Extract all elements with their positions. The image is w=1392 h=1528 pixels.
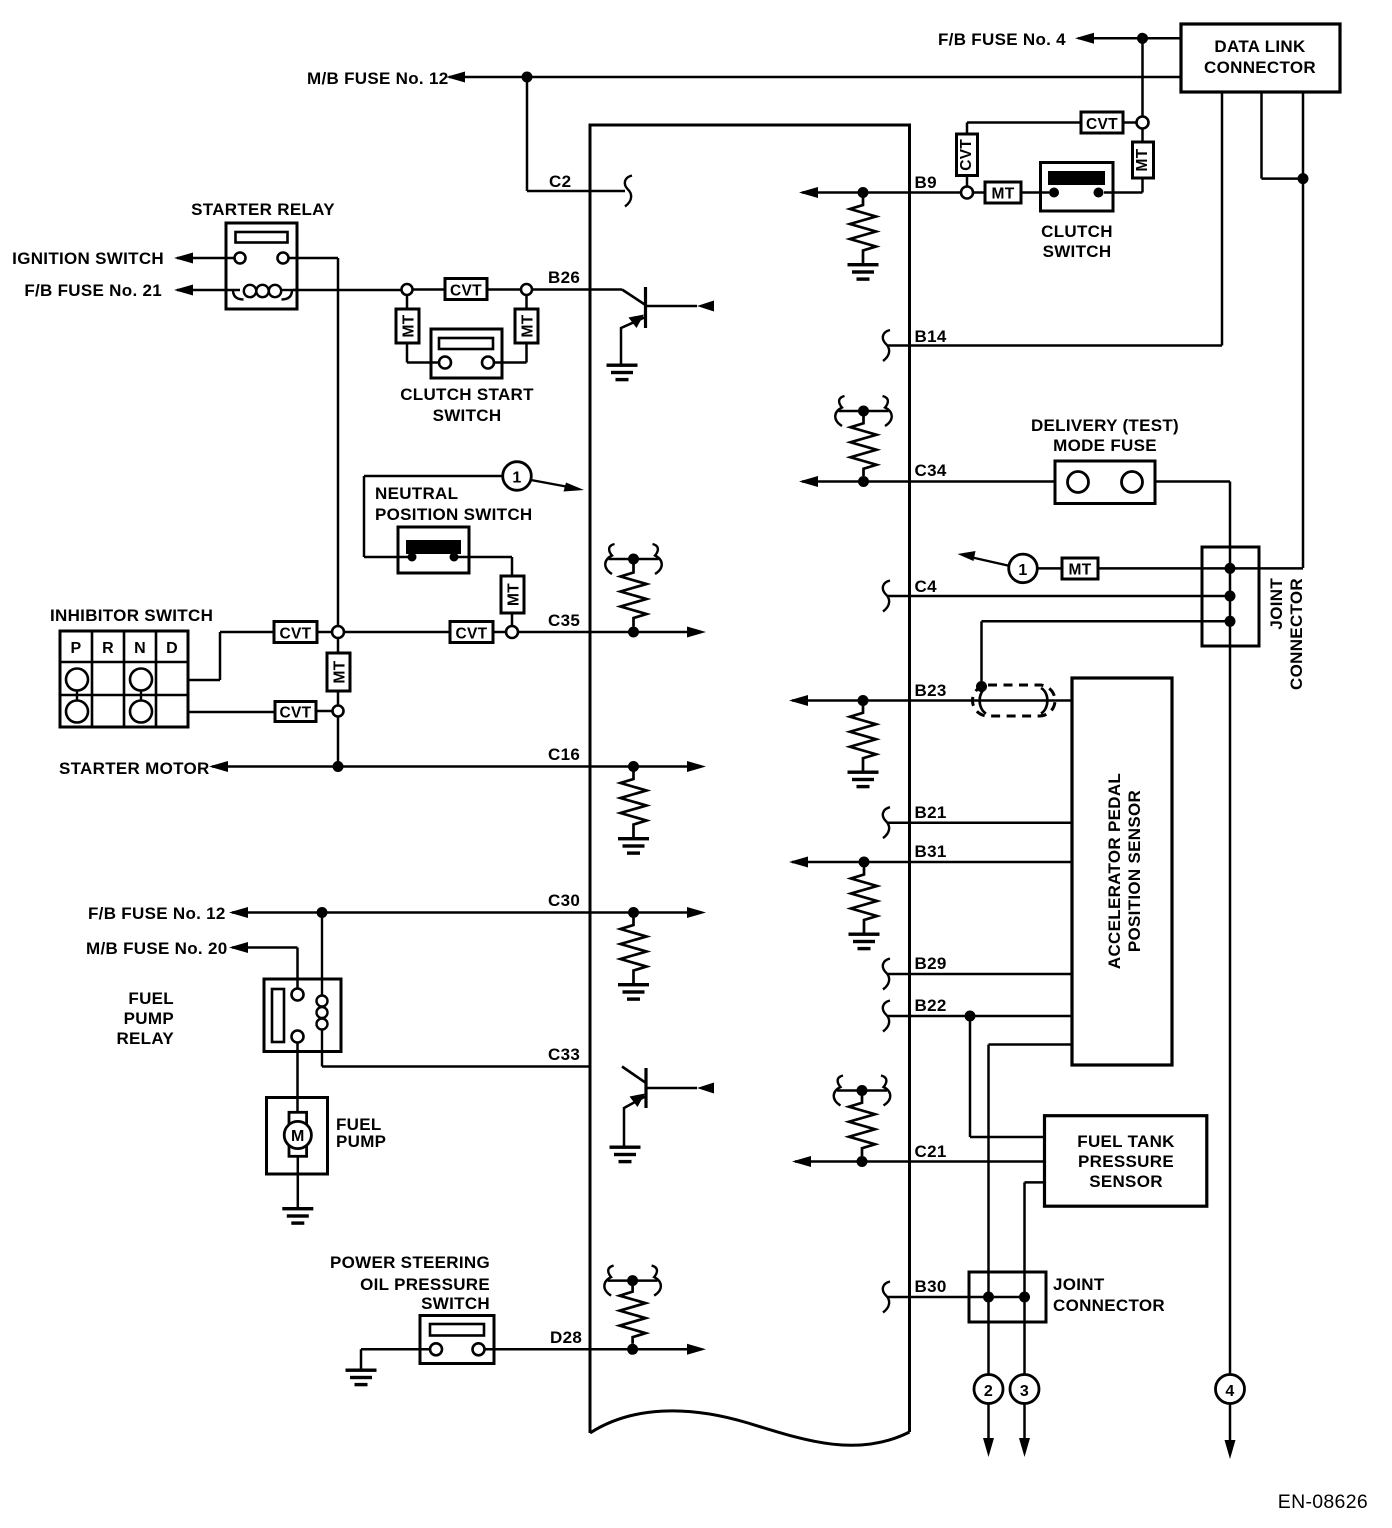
junction dot JC pin 3	[1225, 616, 1236, 627]
svg-text:C34: C34	[915, 461, 947, 480]
svg-text:MT: MT	[401, 314, 418, 337]
wire vertical bus to inhibitor node	[337, 258, 340, 626]
shield hooks above C35 resistor	[605, 544, 662, 574]
wire B22 to sensor	[888, 1015, 1072, 1018]
arrow to IGNITION SWITCH	[174, 253, 193, 264]
svg-text:MT: MT	[520, 314, 537, 337]
wire CVT node to MT	[1141, 129, 1144, 143]
label M/B FUSE No. 12	[307, 69, 448, 88]
inhibitor switch table	[60, 631, 188, 727]
starter relay coil	[233, 285, 297, 300]
svg-text:SENSOR: SENSOR	[1089, 1172, 1163, 1191]
junction dot B9	[858, 187, 869, 198]
svg-text:JOINT: JOINT	[1267, 578, 1286, 630]
wire JC pin3 to shield	[982, 621, 1231, 681]
wire relay to fuel pump	[296, 1043, 299, 1113]
reference circle 1 (neutral position switch)	[364, 462, 531, 491]
delivery fuse terminal 1	[1068, 472, 1089, 493]
arrow B9 internal	[799, 187, 818, 198]
MT box on B9 line	[985, 182, 1021, 203]
arrow C16 internal	[687, 761, 706, 772]
junction dot C21	[857, 1156, 868, 1167]
shield arc left	[980, 688, 986, 714]
wire C30 line	[232, 911, 590, 914]
wire C16 inside ECU	[590, 765, 687, 768]
ECU main harness connector box right edge	[908, 125, 911, 1432]
joint connector box (lower)	[969, 1272, 1046, 1322]
wire D28 line	[485, 1348, 591, 1351]
inhibitor switch contact P row2	[66, 669, 88, 691]
label F/B FUSE No. 4	[938, 30, 1066, 49]
clutch start switch pin 2	[482, 357, 494, 369]
wire C34 line	[802, 480, 1055, 483]
svg-text:CONNECTOR: CONNECTOR	[1204, 58, 1316, 77]
label POWER STEERING OIL PRESSURE SWITCH	[330, 1253, 490, 1313]
svg-text:C33: C33	[548, 1045, 580, 1064]
break symbol at B22	[883, 1001, 890, 1032]
CVT box on B26 line	[445, 279, 487, 300]
wire relay coil to C33	[322, 1065, 590, 1068]
label FUEL PUMP	[336, 1115, 386, 1151]
arrow to M/B FUSE No. 20	[229, 942, 248, 953]
label C35	[548, 611, 580, 630]
wire NPS pin2 down through MT (C35 branch)	[454, 557, 512, 576]
label JOINT CONNECTOR (lower)	[1053, 1275, 1165, 1315]
arrow B31 internal	[789, 857, 808, 868]
resistor R-B31	[851, 862, 877, 933]
label INHIBITOR SWITCH	[50, 606, 213, 625]
wire relay pin 2 to vertical bus	[289, 257, 339, 260]
accelerator pedal position sensor box	[1072, 678, 1172, 1065]
wire C4 to JC	[888, 595, 1230, 598]
arrow to F/B FUSE No. 12	[229, 907, 248, 918]
junction dot JC pin 2	[1225, 591, 1236, 602]
fuel pump motor M	[284, 1121, 311, 1148]
svg-text:PUMP: PUMP	[124, 1009, 174, 1028]
svg-text:C35: C35	[548, 611, 580, 630]
label STARTER RELAY	[191, 200, 335, 219]
arrow from circle 1 (ECU side)	[958, 551, 1011, 566]
arrow down 4	[1225, 1440, 1236, 1459]
wire below circle 2	[987, 1404, 990, 1439]
transistor Q1 at B26	[590, 287, 714, 364]
label EN-08626	[1278, 1491, 1368, 1513]
MT box on bus (inhibitor)	[327, 653, 350, 691]
label B21	[915, 803, 947, 822]
neutral position switch contact bar	[406, 540, 461, 554]
reference circle 2	[974, 1375, 1003, 1404]
shield hooks above C34 resistor	[835, 396, 892, 426]
svg-text:MT: MT	[332, 660, 349, 683]
svg-text:F/B FUSE No. 4: F/B FUSE No. 4	[938, 30, 1066, 49]
ground at ps switch	[346, 1369, 377, 1387]
starter relay contact bar	[236, 232, 288, 243]
node circle on bus (row3)	[333, 706, 344, 717]
label STARTER MOTOR	[59, 759, 210, 778]
node circle right of CVT (B26 line)	[521, 284, 532, 295]
label B14	[915, 327, 947, 346]
label C16	[548, 745, 580, 764]
wire C21 line	[795, 1160, 1045, 1163]
wire fuse4 node down to CVT node	[1141, 38, 1144, 116]
clutch start switch contact bar	[439, 338, 493, 349]
svg-text:CVT: CVT	[280, 705, 312, 722]
svg-text:N: N	[134, 640, 146, 657]
neutral position switch pin 1	[408, 553, 417, 562]
fuel pump brush housing	[289, 1112, 307, 1156]
wire MT to clutch switch pin	[973, 191, 1049, 194]
svg-text:DELIVERY (TEST): DELIVERY (TEST)	[1031, 416, 1179, 435]
label FUEL PUMP RELAY	[116, 989, 174, 1048]
wire B14 to DLC	[888, 344, 1222, 347]
junction dot JC pin 1	[1225, 563, 1236, 574]
svg-text:R: R	[102, 640, 114, 657]
wire node down to starter motor line	[337, 717, 340, 767]
svg-text:C16: C16	[548, 745, 580, 764]
wire MT down to clutch switch	[1104, 178, 1143, 193]
MT box right (clutch start)	[515, 309, 538, 343]
junction dot C35	[628, 627, 639, 638]
resistor R-C30	[621, 913, 647, 984]
wire relay coil to clutch start circuit	[293, 289, 402, 292]
junction dot JC2 pin 1	[983, 1292, 994, 1303]
label B29	[915, 954, 947, 973]
svg-text:F/B FUSE No. 12: F/B FUSE No. 12	[88, 904, 226, 923]
ground below R-B9	[848, 263, 879, 281]
arrow C34 internal	[799, 476, 818, 487]
svg-text:C2: C2	[549, 172, 571, 191]
junction dot D28	[627, 1344, 638, 1355]
label D28	[550, 1328, 582, 1347]
fuel pump relay coil	[317, 913, 328, 1067]
wire inhibitor row2 to CVT box	[188, 632, 274, 680]
CVT box (clutch, horizontal)	[1081, 112, 1123, 133]
arrow to STARTER MOTOR	[209, 761, 228, 772]
junction dot DLC pin3	[1298, 173, 1309, 184]
wire MT to lower node circle	[337, 691, 340, 706]
wire fuse to joint connector bus	[1155, 482, 1230, 563]
arrow to F/B FUSE No. 21	[174, 285, 193, 296]
label IGNITION SWITCH	[12, 249, 164, 268]
wire F/B fuse 21 to relay coil	[177, 289, 240, 292]
wire B29 to sensor	[888, 973, 1072, 976]
svg-text:CLUTCH: CLUTCH	[1041, 222, 1113, 241]
inhibitor switch column labels P R N D	[71, 640, 178, 657]
svg-text:B30: B30	[915, 1277, 947, 1296]
ground below R-C16	[618, 837, 649, 855]
wire CVT to bus node circle	[317, 631, 332, 634]
ground below R-B23	[848, 771, 879, 789]
label F/B FUSE No. 12	[88, 904, 226, 923]
label B22	[915, 996, 947, 1015]
svg-text:CONNECTOR: CONNECTOR	[1287, 578, 1306, 690]
svg-text:ACCELERATOR PEDAL: ACCELERATOR PEDAL	[1105, 773, 1124, 969]
label C21	[915, 1142, 947, 1161]
svg-text:PUMP: PUMP	[336, 1132, 386, 1151]
wire node to ECU pin B26	[532, 288, 590, 291]
break symbol at C2	[625, 176, 632, 207]
svg-text:SWITCH: SWITCH	[421, 1294, 490, 1313]
clutch switch contact bar	[1048, 171, 1105, 185]
wire CVT to right node circle	[413, 288, 522, 291]
wire DLC pin2 down	[1262, 92, 1304, 179]
wire below circle 3	[1023, 1404, 1026, 1439]
svg-text:CVT: CVT	[958, 139, 975, 171]
svg-text:POWER STEERING: POWER STEERING	[330, 1253, 490, 1272]
junction dot node C2 feed	[522, 72, 533, 83]
svg-text:B9: B9	[915, 173, 937, 192]
wire circle-1 line down to NPS	[364, 476, 412, 557]
power steering switch pin 2	[473, 1343, 485, 1355]
arrow from circle 1 to ECU	[531, 480, 584, 492]
svg-text:OIL PRESSURE: OIL PRESSURE	[360, 1275, 490, 1294]
resistor R-B23	[850, 701, 876, 771]
svg-text:4: 4	[1225, 1383, 1234, 1400]
arrow down 3	[1019, 1438, 1030, 1457]
delivery mode fuse box	[1055, 461, 1155, 504]
svg-text:B23: B23	[915, 681, 947, 700]
wire C35 node to ECU	[518, 631, 590, 634]
fuel pump relay pin top	[292, 989, 304, 1001]
wire ps switch to ground	[361, 1349, 430, 1368]
wire circle1 to MT to JC	[1038, 567, 1231, 570]
clutch start switch box	[431, 329, 502, 378]
wire C35 inside ECU	[590, 631, 687, 634]
arrow C30 internal	[687, 907, 706, 918]
junction dot F/B fuse 4	[1137, 33, 1148, 44]
wire starter motor line	[212, 765, 590, 768]
svg-text:1: 1	[512, 470, 521, 487]
junction dot C34	[858, 476, 869, 487]
wire CVT3 to node	[316, 710, 333, 713]
wire CVT2 to NPS node circle	[493, 631, 506, 634]
svg-text:MT: MT	[506, 583, 523, 606]
svg-text:CONNECTOR: CONNECTOR	[1053, 1296, 1165, 1315]
wire B9 line	[802, 191, 961, 194]
wire fuel pump to ground	[297, 1156, 300, 1207]
wire node to CVT box 2	[344, 631, 450, 634]
svg-text:F/B FUSE No. 21: F/B FUSE No. 21	[24, 281, 162, 300]
svg-text:FUEL: FUEL	[128, 989, 174, 1008]
node circle on C35 at NPS branch	[506, 626, 518, 638]
svg-text:M/B FUSE No. 20: M/B FUSE No. 20	[86, 939, 227, 958]
reference circle 3	[1010, 1375, 1039, 1404]
svg-text:M: M	[291, 1128, 305, 1145]
bus node circle on C35	[332, 626, 344, 638]
ground at Q1 emitter	[607, 364, 638, 382]
wire DLC pin1 down to B14	[1221, 92, 1224, 346]
wire CVT left and down	[967, 123, 1137, 135]
svg-text:B22: B22	[915, 996, 947, 1015]
svg-text:STARTER MOTOR: STARTER MOTOR	[59, 759, 210, 778]
ground below R-C30	[618, 983, 649, 1001]
joint connector box (upper)	[1202, 547, 1259, 646]
DATA LINK CONNECTOR box	[1181, 24, 1340, 92]
label CLUTCH START SWITCH	[400, 385, 534, 425]
CVT box on C35 line right	[450, 622, 493, 643]
fuel pump relay pin bottom	[292, 1031, 304, 1043]
shield arc right	[1041, 688, 1047, 714]
resistor R-C16	[621, 767, 647, 838]
transistor Q2 at C33	[622, 1067, 714, 1147]
svg-text:D28: D28	[550, 1328, 582, 1347]
junction dot B31	[859, 857, 870, 868]
fuel pump relay contact bar	[272, 989, 284, 1042]
starter relay pin 2	[278, 253, 289, 264]
CVT box row 3	[275, 702, 316, 722]
label C30	[548, 891, 580, 910]
wire switch pin2 up through MT to node	[494, 295, 527, 363]
CVT box (clutch, vertical)	[957, 134, 978, 176]
MT box (clutch, vertical)	[1133, 142, 1154, 178]
wire C30 inside ECU	[590, 911, 687, 914]
svg-text:PRESSURE: PRESSURE	[1078, 1152, 1174, 1171]
junction dot C16	[628, 761, 639, 772]
clutch switch pin 2	[1094, 188, 1104, 198]
shield dot at B23	[976, 681, 987, 692]
wire B23 line	[792, 699, 1072, 702]
svg-text:SWITCH: SWITCH	[433, 406, 502, 425]
label JOINT CONNECTOR (vertical)	[1267, 578, 1306, 690]
joint connector bus vertical	[1229, 562, 1232, 1375]
svg-text:JOINT: JOINT	[1053, 1275, 1105, 1294]
wire junction down to C2	[527, 77, 590, 191]
resistor R-C35	[621, 564, 647, 627]
MT box (neutral position switch)	[501, 576, 524, 613]
label DELIVERY (TEST) MODE FUSE	[1031, 416, 1179, 455]
wire DLC pin3 down	[1302, 92, 1305, 568]
fuel pump relay box	[264, 979, 341, 1052]
clutch switch box	[1041, 163, 1114, 212]
starter relay pin 1	[235, 253, 246, 264]
reference circle 1 (joint connector)	[1009, 554, 1038, 583]
label NEUTRAL POSITION SWITCH	[375, 484, 533, 524]
junction dot B22	[965, 1011, 976, 1022]
svg-text:STARTER RELAY: STARTER RELAY	[191, 200, 335, 219]
wire D28 inside ECU	[590, 1348, 687, 1351]
node circle on B9	[961, 187, 973, 199]
break symbol at B29	[883, 959, 890, 990]
svg-text:B31: B31	[915, 842, 947, 861]
arrow C21 internal	[792, 1156, 811, 1167]
junction dot starter motor bus	[333, 761, 344, 772]
label ACCELERATOR PEDAL POSITION SENSOR	[1105, 773, 1144, 969]
arrow B23 internal	[789, 695, 808, 706]
shield hooks above C21 resistor	[834, 1076, 891, 1106]
arrow to F/B FUSE No. 4	[1075, 33, 1094, 44]
wire left node down through MT to switch	[407, 295, 439, 363]
svg-text:MT: MT	[992, 186, 1015, 203]
svg-text:C30: C30	[548, 891, 580, 910]
arrow C35 internal	[687, 627, 706, 638]
break symbol at C4	[883, 581, 890, 612]
ECU main harness connector box left edge	[589, 125, 592, 1433]
svg-text:B21: B21	[915, 803, 947, 822]
wire B31 line	[792, 861, 1072, 864]
arrow D28 internal	[687, 1344, 706, 1355]
label C2	[549, 172, 571, 191]
wire sensor bottom to joint connector 2	[989, 1045, 1073, 1376]
svg-text:CVT: CVT	[1086, 116, 1118, 133]
wire JC to DLC riser	[1230, 567, 1303, 570]
svg-text:B26: B26	[548, 268, 580, 287]
wire B21 to sensor	[888, 821, 1072, 824]
junction dot JC2 pin 2	[1019, 1292, 1030, 1303]
svg-text:MODE FUSE: MODE FUSE	[1053, 436, 1157, 455]
wire sensor pin3 to joint connector 2	[1025, 1182, 1045, 1375]
delivery fuse terminal 2	[1122, 472, 1143, 493]
label F/B FUSE No. 21	[24, 281, 162, 300]
shield dashed oval at B23	[973, 685, 1056, 716]
svg-text:NEUTRAL: NEUTRAL	[375, 484, 458, 503]
wire M/B FUSE No.12 to DATA LINK CONNECTOR	[449, 76, 1181, 79]
wire bus node to MT	[337, 638, 340, 653]
svg-text:CLUTCH START: CLUTCH START	[400, 385, 534, 404]
resistor R-B9	[850, 193, 876, 264]
svg-text:CVT: CVT	[280, 626, 312, 643]
label C34	[915, 461, 947, 480]
label B23	[915, 681, 947, 700]
wire vertical CVT to node circle	[966, 176, 969, 187]
junction dot B23	[858, 695, 869, 706]
label B31	[915, 842, 947, 861]
wire JC2 pins link	[989, 1296, 1025, 1299]
label CLUTCH SWITCH	[1041, 222, 1113, 261]
ground below R-B31	[849, 933, 880, 951]
MT box (joint connector line)	[1062, 558, 1098, 579]
resistor R-C34	[851, 416, 877, 476]
MT box left (clutch start)	[396, 309, 419, 343]
label C33	[548, 1045, 580, 1064]
resistor R-D28	[620, 1285, 646, 1344]
svg-text:SWITCH: SWITCH	[1043, 242, 1112, 261]
ECU main harness connector box top edge	[589, 124, 912, 127]
resistor R-C21	[849, 1095, 875, 1156]
starter relay box	[226, 223, 297, 309]
svg-text:INHIBITOR SWITCH: INHIBITOR SWITCH	[50, 606, 213, 625]
wire C2 inside ECU	[590, 190, 625, 193]
node circle left of CVT (B26 line)	[402, 284, 413, 295]
wire M/B fuse 20 to relay	[232, 948, 298, 989]
inhibitor switch contact N row2	[130, 669, 152, 691]
power steering switch contact bar	[430, 1324, 484, 1336]
inhibitor switch contact link N	[140, 691, 142, 701]
svg-text:DATA LINK: DATA LINK	[1214, 37, 1306, 56]
clutch start switch pin 1	[439, 357, 451, 369]
neutral position switch box	[398, 527, 469, 573]
svg-text:C21: C21	[915, 1142, 947, 1161]
svg-text:EN-08626: EN-08626	[1278, 1491, 1368, 1513]
svg-text:B14: B14	[915, 327, 947, 346]
svg-text:POSITION SWITCH: POSITION SWITCH	[375, 505, 533, 524]
svg-text:MT: MT	[1069, 562, 1092, 579]
svg-text:MT: MT	[1134, 148, 1151, 171]
label B9	[915, 173, 937, 192]
svg-text:B29: B29	[915, 954, 947, 973]
svg-text:FUEL TANK: FUEL TANK	[1077, 1132, 1175, 1151]
clutch switch pin 1	[1049, 188, 1059, 198]
svg-text:3: 3	[1020, 1383, 1029, 1400]
junction dot C30	[628, 907, 639, 918]
svg-text:M/B FUSE No. 12: M/B FUSE No. 12	[307, 69, 448, 88]
node circle clutch CVT	[1137, 117, 1149, 129]
fuel pump box	[267, 1098, 328, 1175]
inhibitor switch contact link P	[76, 691, 78, 701]
label B26	[548, 268, 580, 287]
power steering switch pin 1	[430, 1343, 442, 1355]
neutral position switch pin 2	[450, 553, 459, 562]
break symbol at B21	[883, 807, 890, 838]
